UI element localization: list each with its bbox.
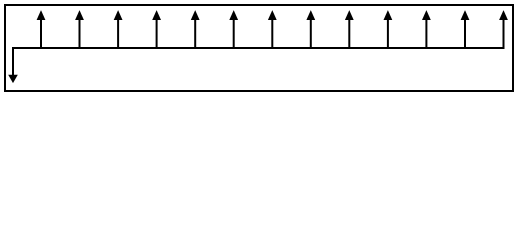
arrow down (reaction) xyxy=(8,75,18,83)
arrow up 3 xyxy=(114,10,123,49)
arrow up 9 xyxy=(345,10,354,49)
arrow up 2 xyxy=(75,10,84,49)
arrow up 13 xyxy=(499,10,508,49)
arrow up 11 xyxy=(422,10,431,49)
arrow up 1 xyxy=(37,10,46,49)
arrow up 10 xyxy=(384,10,393,49)
arrow up 4 xyxy=(152,10,161,49)
arrow up 7 xyxy=(268,10,277,49)
arrow up 12 xyxy=(461,10,470,49)
wire: left vertical drop xyxy=(12,47,14,76)
wire: horizontal load line xyxy=(12,47,505,49)
border frame xyxy=(5,5,513,91)
arrow up 8 xyxy=(306,10,315,49)
arrow up 6 xyxy=(229,10,238,49)
arrow up 5 xyxy=(191,10,200,49)
